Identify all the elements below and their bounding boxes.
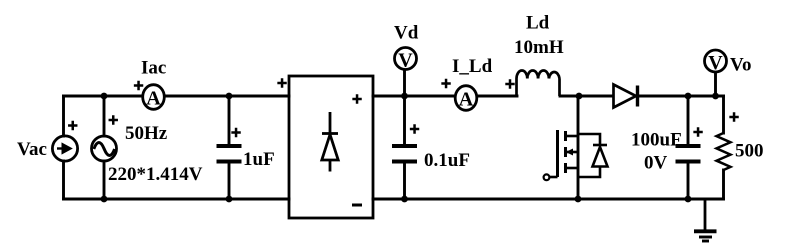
wire Vac branch [62,96,65,199]
polarity plus of bridge input [277,78,286,87]
wire Vd probe stem [403,69,406,96]
svg-text:50Hz: 50Hz [125,123,168,144]
bridge diode symbol [322,112,338,172]
svg-text:Vo: Vo [730,55,751,76]
svg-text:A: A [459,89,474,111]
svg-text:I_Ld: I_Ld [452,56,493,77]
wire bottom rail left section [64,198,290,201]
polarity plus of ammeter Iac [134,81,143,90]
svg-text:500: 500 [735,141,764,162]
node junction: 100uF top [685,93,692,100]
wire AC source branch [103,96,106,199]
inductor Ld [517,70,560,96]
wire Vo probe stem [714,72,717,96]
polarity plus of capacitor 1uF [231,128,240,137]
svg-text:Ld: Ld [526,13,550,34]
wire top rail rectifier to inductor [373,95,517,98]
svg-text:Vac: Vac [17,139,47,160]
svg-text:220*1.414V: 220*1.414V [108,164,203,185]
wire load branch [716,96,724,199]
MOSFET Q1 [544,130,608,180]
node junction: MOSFET source [575,196,582,203]
AC source V1 [92,136,117,161]
capacitor C3 100uF [676,146,701,162]
diode D1 [614,85,638,108]
polarity plus of inductor Ld [505,79,514,88]
polarity plus of ammeter I_Ld [441,79,450,88]
node junction: AC source top [101,93,108,100]
polarity plus of capacitor 0.1uF [410,124,419,133]
node junction: 100uF bottom [685,196,692,203]
voltmeter probe Vd [395,48,417,72]
polarity plus of capacitor 100uF [693,127,702,136]
resistor RL 500 [717,133,731,170]
capacitor C1 1uF [217,146,242,162]
node junction: MOSFET drain [576,93,583,100]
svg-text:A: A [146,88,161,110]
wire 0.1uF branch [403,96,406,199]
wire 1uF branch [228,96,231,199]
polarity plus of bridge output [352,94,361,103]
svg-text:0.1uF: 0.1uF [424,150,470,171]
svg-text:Vd: Vd [394,23,419,44]
svg-text:V: V [708,52,723,74]
voltmeter probe Vo [705,50,727,74]
ammeter Iac [143,85,165,110]
node junction: Vo / load top [712,93,719,100]
wire MOSFET drain-source [577,96,580,199]
polarity plus of Vac probe [68,121,77,130]
capacitor C2 0.1uF [392,146,417,162]
wire top rail diode to load [637,95,724,98]
svg-text:100uF: 100uF [631,130,682,151]
ammeter I_Ld [455,86,477,111]
wire bottom rail right section [373,198,724,201]
svg-text:10mH: 10mH [514,37,564,58]
wire 100uF branch [687,96,690,199]
svg-text:0V: 0V [644,153,668,174]
svg-text:1uF: 1uF [243,149,275,170]
voltage probe Vac [52,136,77,161]
svg-text:V: V [398,50,413,72]
node junction: 1uF top [226,93,233,100]
node junction: 1uF bottom [226,196,233,203]
rectifier bridge BD1 [289,76,373,218]
node junction: Vd / 0.1uF top [401,93,408,100]
wire top rail inductor to diode [560,95,613,98]
node junction: AC source bottom [101,196,108,203]
polarity minus of bridge output [352,204,362,207]
polarity plus of AC source [109,115,118,124]
node junction: 0.1uF bottom [401,196,408,203]
ground [694,199,717,241]
svg-text:Iac: Iac [141,58,166,79]
polarity plus of load resistor [729,112,738,121]
wire top rail left section [64,95,290,98]
